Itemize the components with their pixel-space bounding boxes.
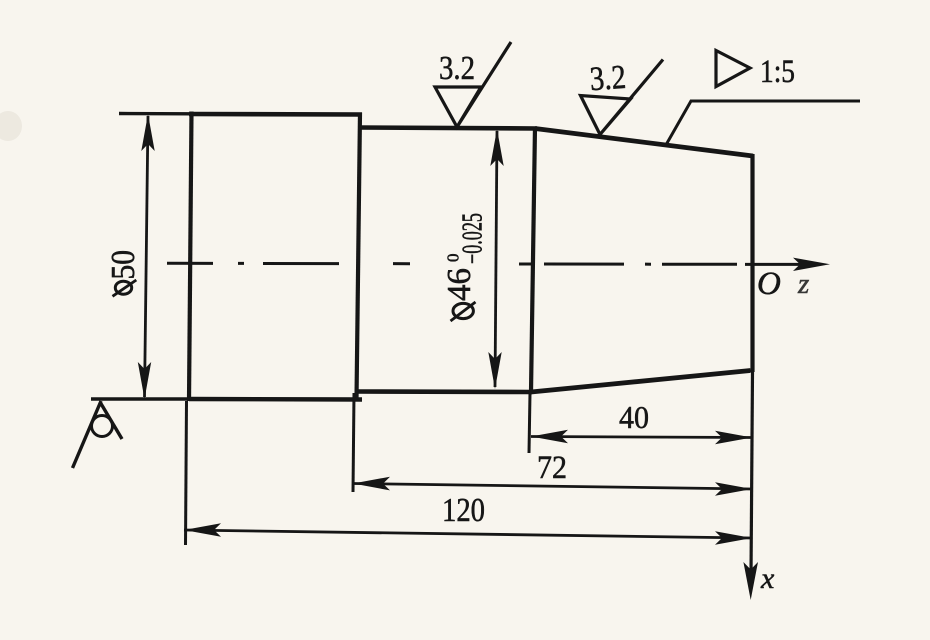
extension line for 120 dimension bbox=[186, 401, 187, 545]
svg-text:z: z bbox=[797, 268, 809, 300]
centerline (z axis) dash-dot left part bbox=[167, 262, 412, 265]
faint scan smudge at left edge bbox=[0, 111, 22, 141]
z axis arrowhead bbox=[793, 258, 830, 271]
shaft big cylinder left face bbox=[189, 112, 192, 402]
shaft boundary face between middle cylinder and taper bbox=[531, 127, 535, 393]
svg-text:72: 72 bbox=[537, 450, 567, 486]
taper symbol triangle bbox=[716, 51, 750, 87]
phi46 upper arrowhead bbox=[490, 129, 503, 166]
svg-text:40: 40 bbox=[619, 399, 649, 435]
extension line left of big cylinder top edge bbox=[119, 112, 192, 116]
shaft big cylinder bottom edge bbox=[189, 397, 362, 402]
x axis line continuing from right end face bbox=[751, 372, 753, 575]
svg-text:O: O bbox=[757, 266, 781, 302]
roughness symbol (non-machined, circle) under bottom extension bbox=[73, 401, 123, 468]
shaft middle cylinder top edge bbox=[358, 128, 537, 129]
120 dimension line bbox=[184, 530, 752, 538]
extension line left of big cylinder bottom edge bbox=[91, 397, 192, 400]
svg-text:3.2: 3.2 bbox=[439, 50, 475, 87]
phi46 label with tolerance bbox=[441, 213, 489, 321]
extension line for 72 dimension bbox=[353, 393, 354, 492]
svg-text:−0.025: −0.025 bbox=[458, 213, 489, 264]
roughness symbol 3.2 on middle cylinder bbox=[435, 42, 511, 127]
120 left arrowhead bbox=[184, 523, 221, 537]
centerline (z axis) dash-dot right part bbox=[519, 263, 800, 266]
svg-text:120: 120 bbox=[442, 492, 485, 529]
extension line for 40 dimension bbox=[529, 393, 530, 453]
40 right arrowhead bbox=[715, 431, 752, 445]
shaft middle cylinder bottom edge bbox=[355, 389, 532, 394]
shaft step face between big and middle cylinder bbox=[357, 113, 361, 400]
120 right arrowhead bbox=[715, 531, 752, 545]
taper right end face bbox=[750, 154, 754, 372]
roughness symbol 3.2 on taper (tilted) bbox=[581, 60, 664, 135]
svg-text:50: 50 bbox=[105, 250, 142, 280]
40 dimension line bbox=[531, 437, 752, 438]
taper leader line bbox=[667, 101, 861, 144]
72 dimension line bbox=[353, 484, 752, 490]
phi46 dimension line bbox=[495, 131, 497, 387]
taper bottom edge bbox=[531, 371, 751, 393]
taper top edge bbox=[535, 129, 753, 157]
phi50 label bbox=[105, 250, 142, 296]
phi50 lower arrowhead bbox=[138, 362, 151, 399]
x axis arrowhead bbox=[743, 562, 758, 600]
shaft big cylinder top edge bbox=[189, 112, 362, 117]
72 left arrowhead bbox=[353, 477, 390, 491]
svg-text:46: 46 bbox=[441, 268, 478, 301]
phi46 lower arrowhead bbox=[488, 352, 501, 389]
svg-text:x: x bbox=[760, 562, 775, 595]
40 left arrowhead bbox=[531, 430, 568, 444]
svg-text:1:5: 1:5 bbox=[760, 54, 795, 90]
72 right arrowhead bbox=[715, 482, 752, 496]
phi50 upper arrowhead bbox=[141, 114, 154, 151]
phi50 dimension line bbox=[145, 116, 149, 397]
svg-text:3.2: 3.2 bbox=[589, 59, 627, 98]
